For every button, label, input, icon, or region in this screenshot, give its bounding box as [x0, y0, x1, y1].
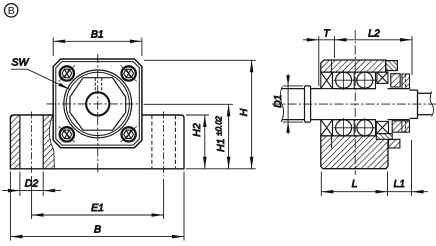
- flange square inner chamfer line: [56, 62, 140, 146]
- housing top block seam: [331, 60, 333, 72]
- gland ring top: [391, 74, 400, 87]
- dim H: [144, 60, 256, 169]
- svg-text:B: B: [94, 223, 101, 235]
- svg-text:B: B: [8, 5, 15, 17]
- shaft break right: [430, 92, 433, 117]
- foot section hatch left of hole: [11, 115, 20, 168]
- bore circle: [86, 92, 109, 115]
- dim H1: [144, 104, 234, 169]
- ball bottom 1: [336, 120, 352, 136]
- mounting hole right (hidden): [151, 115, 153, 169]
- dim T: [303, 36, 334, 86]
- gland step bottom: [389, 139, 400, 148]
- hex (octagon) SW: [70, 78, 126, 131]
- view label B (circled): [5, 4, 18, 17]
- centerline vertical: [97, 54, 99, 173]
- svg-text:E1: E1: [91, 202, 104, 214]
- top cover (right, back-hatched): [386, 61, 398, 71]
- seal square bottom right: [376, 121, 388, 133]
- seal square top right: [377, 72, 388, 83]
- dim B1: [53, 38, 142, 57]
- svg-text:SW: SW: [12, 57, 30, 69]
- centerline of right hole: [163, 112, 165, 177]
- dim E1: [32, 176, 164, 219]
- dim D2: [2, 172, 61, 197]
- housing top block hatch: [321, 60, 386, 72]
- dim L2: [334, 36, 412, 75]
- break line (broken-out section boundary): [49, 115, 54, 168]
- svg-text:L2: L2: [368, 28, 380, 40]
- centerline of left hole: [31, 112, 33, 174]
- hidden grease hole: [94, 78, 96, 91]
- screw TR: [121, 65, 137, 81]
- foot section hatch right of hole (to break line): [43, 115, 54, 168]
- shaft: [282, 89, 432, 120]
- base plate (foot) outline: [10, 115, 184, 169]
- boss circle inner: [66, 72, 129, 135]
- centerline vertical: [354, 30, 356, 175]
- screw BR: [121, 126, 137, 142]
- boss circle outer: [64, 70, 132, 138]
- mounting hole left (sectioned): [19, 115, 21, 169]
- bearing top: races: [333, 72, 376, 89]
- svg-text:H2: H2: [191, 123, 203, 137]
- ball bottom 2: [357, 120, 373, 136]
- shaft break left: [280, 87, 283, 122]
- shoulder disc: [305, 86, 311, 122]
- dim L: [321, 172, 387, 197]
- centerline horizontal: [272, 103, 436, 105]
- ball top 1: [336, 72, 352, 88]
- dim H2: [186, 115, 209, 169]
- seal square top left: [321, 72, 333, 89]
- bottom cover lip (back-hatched): [376, 134, 392, 140]
- centerline horizontal: [47, 103, 141, 105]
- bearing bottom: races: [333, 120, 376, 136]
- gland+locknut bottom: [392, 121, 409, 132]
- ball top 2: [357, 72, 373, 88]
- dim L1: [388, 140, 429, 196]
- screw TL: [59, 65, 75, 81]
- seal square bottom left: [321, 120, 333, 136]
- svg-text:B1: B1: [91, 29, 104, 41]
- svg-text:L: L: [352, 178, 358, 190]
- foot + housing bottom hatch: [321, 136, 388, 169]
- svg-text:L1: L1: [393, 178, 405, 190]
- dim B: [10, 172, 184, 241]
- dim D1: [283, 74, 303, 134]
- svg-text:D1: D1: [272, 94, 284, 107]
- svg-text:H: H: [238, 108, 250, 116]
- screw BL: [59, 126, 75, 142]
- locknut top: [402, 74, 410, 89]
- flange square outer: [53, 59, 142, 148]
